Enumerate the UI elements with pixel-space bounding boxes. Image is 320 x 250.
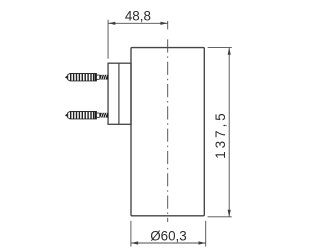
dimension Ø60,3 extension line (right) [205, 221, 207, 247]
dimension 137,5 extension line (top) [208, 47, 232, 49]
dimension 137,5 line [228, 48, 230, 217]
dimension 48,8 line [108, 22, 168, 24]
dimension Ø60,3 line [131, 242, 206, 244]
cylinder body (side view rectangle) [131, 48, 204, 216]
screw 1 (upper hanger bolt) [65, 73, 108, 81]
dimension 48,8 arrow left [108, 22, 115, 25]
dimension Ø60,3 arrow left [131, 241, 138, 244]
center line (vertical dash-dot axis) [167, 39, 169, 222]
screw 2 (lower hanger bolt) [65, 111, 108, 119]
dimension 137,5 extension line (bottom) [208, 216, 232, 218]
flange inner edge line [118, 63, 120, 124]
svg-text:137,5: 137,5 [213, 110, 228, 159]
dimension 48,8 extension line (left) [107, 20, 109, 59]
dimension 48,8 arrow right [160, 22, 167, 25]
dimension Ø60,3 arrow right [199, 241, 206, 244]
flange plate on left of cylinder [108, 63, 131, 124]
dimension 137,5 arrow top [228, 48, 231, 55]
svg-text:Ø60,3: Ø60,3 [150, 228, 186, 243]
dimension Ø60,3 extension line (left) [130, 221, 132, 247]
dimension 137,5 arrow bottom [228, 210, 231, 217]
svg-text:48,8: 48,8 [125, 9, 151, 24]
dimension 48,8 extension overshoot at axis [167, 21, 169, 30]
